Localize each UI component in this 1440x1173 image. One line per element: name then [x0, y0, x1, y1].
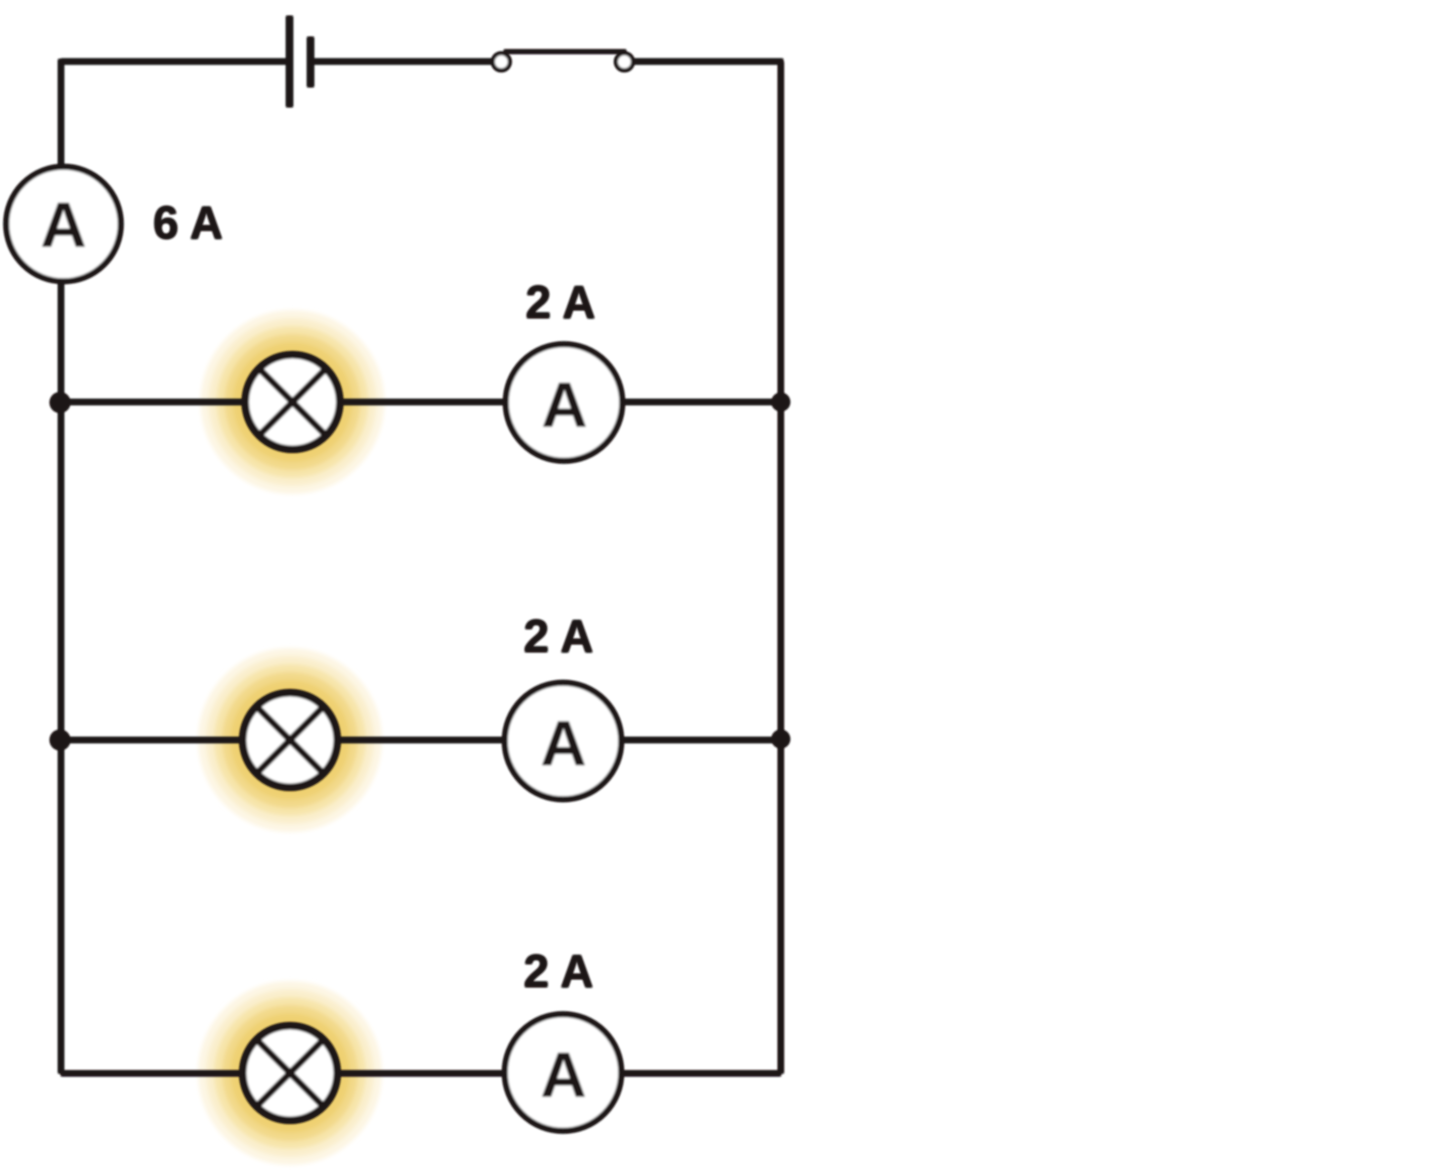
lamp L1	[246, 355, 340, 449]
second pass of line art to deepen blurred strokes	[7, 16, 790, 1131]
switch S1 left terminal	[493, 54, 510, 71]
node: junction dot right branch 2	[772, 730, 790, 748]
lamp L1 glow	[201, 310, 385, 494]
wire: right vertical rail	[778, 62, 784, 1074]
lamp L2 glow	[198, 648, 382, 832]
lamp L3	[243, 1026, 337, 1120]
ammeter A2	[506, 345, 622, 461]
node: junction dot right branch 1	[772, 393, 790, 411]
wire: battery to switch	[313, 59, 492, 65]
wire: left vertical from ammeter A1 down to bottom corner	[58, 281, 64, 1073]
wire: branch 1 horizontal	[61, 399, 781, 405]
wire: branch 2 horizontal	[61, 737, 781, 743]
node: junction dot left branch 2	[50, 730, 70, 750]
wire: top-left horizontal from left corner to battery	[61, 59, 287, 65]
switch S1 blade (closed)	[504, 50, 626, 54]
ammeter A1 (main)	[7, 167, 121, 281]
switch S1 right terminal	[616, 54, 633, 71]
lamp L2	[243, 693, 337, 787]
ammeter A4	[505, 1015, 621, 1131]
lamp L3 glow	[198, 981, 382, 1165]
ammeter A3	[505, 683, 621, 799]
wire: left vertical from top corner to ammeter A1	[58, 59, 64, 167]
wire: switch to top-right corner	[633, 59, 783, 65]
node: junction dot left branch 1	[50, 393, 70, 413]
battery B1 short plate (-)	[307, 37, 314, 87]
wire: branch 3 horizontal (bottom)	[61, 1071, 781, 1077]
battery B1 long plate (+)	[286, 16, 293, 107]
